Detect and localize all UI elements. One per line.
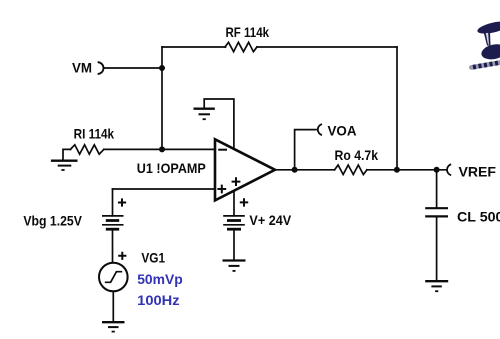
svg-text:Vbg 1.25V: Vbg 1.25V	[23, 213, 82, 229]
svg-text:U1 !OPAMP: U1 !OPAMP	[137, 160, 206, 176]
svg-text:RF 114k: RF 114k	[226, 24, 270, 40]
svg-text:50mVp: 50mVp	[137, 271, 183, 287]
svg-text:RI 114k: RI 114k	[74, 126, 115, 142]
svg-text:100Hz: 100Hz	[137, 292, 179, 308]
svg-text:CL 500: CL 500	[457, 209, 500, 225]
svg-text:VM: VM	[72, 59, 92, 75]
svg-text:VREF: VREF	[459, 163, 497, 179]
svg-text:Ro 4.7k: Ro 4.7k	[335, 147, 379, 163]
svg-text:V+ 24V: V+ 24V	[249, 212, 291, 228]
svg-text:VOA: VOA	[328, 122, 357, 138]
svg-text:VG1: VG1	[141, 250, 165, 266]
